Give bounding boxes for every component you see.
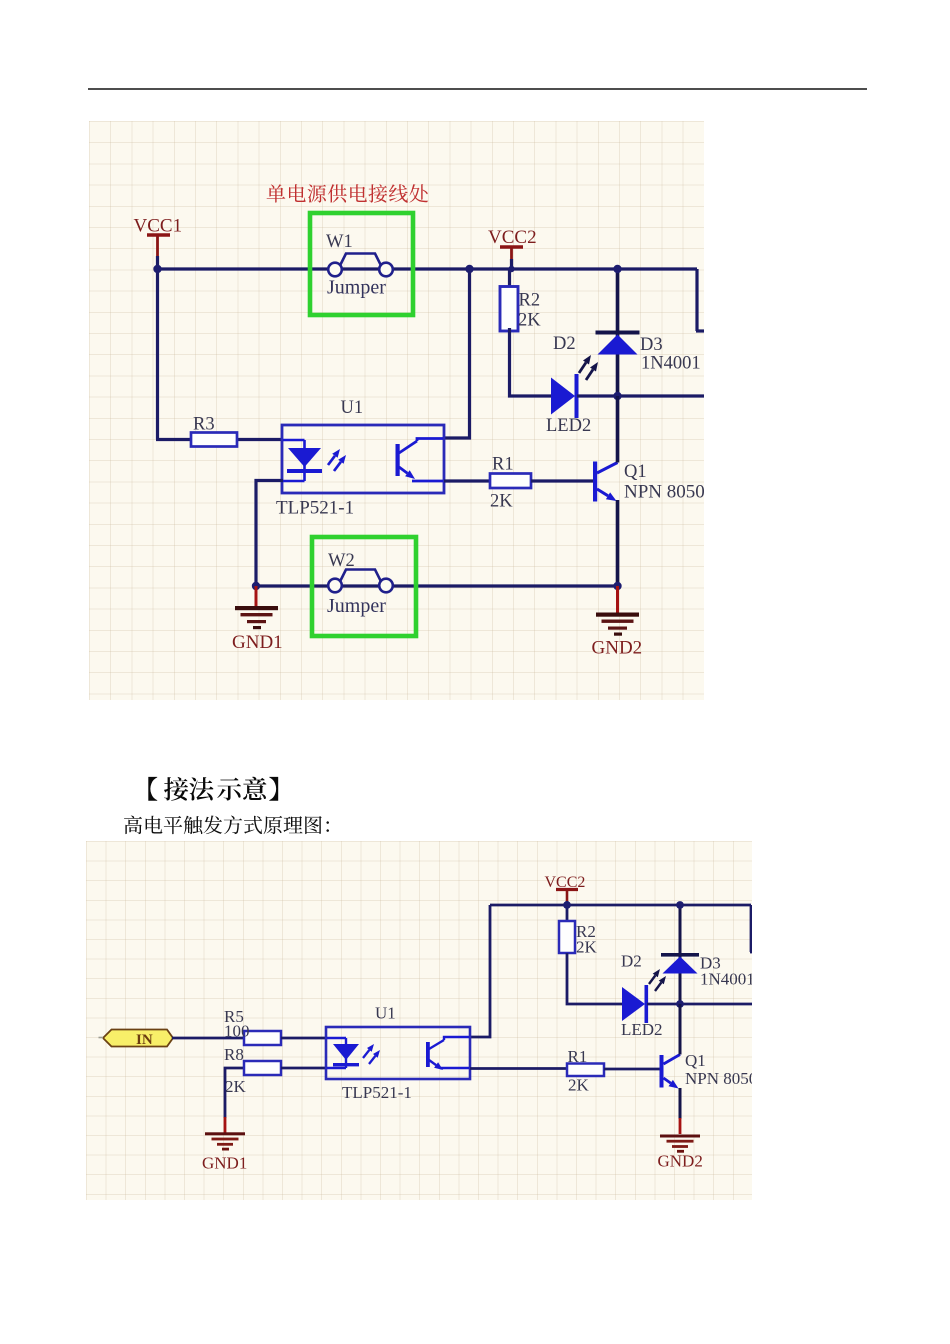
optocoupler U1 box	[326, 1027, 470, 1079]
wire: VCC1 stem	[156, 256, 159, 271]
diode D2 LED2	[622, 987, 645, 1021]
wire: R1 to Q1 base	[531, 479, 594, 482]
U1 LED emission arrows	[328, 456, 335, 465]
wire: left drop VCC1 to R3 row	[156, 269, 159, 440]
wire: U1 pin4 riser	[444, 269, 470, 438]
svg-text:GND2: GND2	[658, 1152, 703, 1171]
wire: Q1 emitter drop	[616, 500, 620, 586]
U1 phototransistor	[396, 444, 400, 476]
svg-text:W1: W1	[326, 232, 353, 252]
svg-text:NPN 8050: NPN 8050	[685, 1069, 752, 1088]
LED2 emission arrows	[579, 363, 586, 374]
svg-text:NPN 8050: NPN 8050	[624, 482, 704, 503]
svg-text:D2: D2	[621, 952, 642, 971]
green highlight box W2	[312, 537, 416, 636]
svg-text:Jumper: Jumper	[327, 595, 386, 617]
svg-text:R1: R1	[568, 1047, 588, 1066]
wire: right corner drop	[750, 905, 753, 952]
power VCC1 symbol	[147, 235, 170, 257]
svg-text:W2: W2	[328, 551, 355, 571]
wire: LED2 out to right edge	[647, 1003, 752, 1006]
diode D3 1N4001	[596, 331, 640, 335]
wire: top VCC rail	[158, 267, 698, 270]
svg-text:LED2: LED2	[621, 1020, 663, 1039]
ground GND2 symbol	[679, 1118, 682, 1134]
jumper W2	[328, 570, 393, 593]
svg-text:2K: 2K	[576, 938, 598, 957]
svg-text:U1: U1	[341, 398, 364, 418]
svg-text:GND1: GND1	[202, 1154, 247, 1173]
ground GND2 symbol	[616, 586, 619, 614]
wire: R3 row left	[156, 438, 191, 441]
wire: U1 pin3 to R1	[470, 1067, 567, 1070]
wire: right stub tick	[750, 951, 758, 954]
svg-text:R8: R8	[224, 1045, 244, 1064]
wire: U1 pin3 to R1	[444, 479, 490, 482]
green highlight box W1	[310, 213, 413, 315]
diode D3 1N4001	[661, 953, 699, 957]
power VCC2 symbol	[556, 890, 578, 903]
schematic 1 panel	[89, 121, 704, 700]
svg-text:GND2: GND2	[592, 638, 643, 659]
wire: R1 to Q1 base	[604, 1068, 660, 1071]
power VCC2 symbol	[500, 247, 523, 260]
svg-text:IN: IN	[136, 1032, 153, 1048]
wire: Q1 emitter drop	[679, 1088, 682, 1119]
svg-text:Jumper: Jumper	[327, 277, 386, 299]
svg-text:GND1: GND1	[232, 632, 283, 653]
svg-text:Q1: Q1	[624, 462, 647, 482]
svg-text:2K: 2K	[490, 492, 513, 512]
schematic 2 panel	[86, 841, 752, 1200]
svg-text:LED2: LED2	[546, 416, 591, 436]
svg-text:Q1: Q1	[685, 1051, 706, 1070]
svg-text:VCC2: VCC2	[545, 874, 586, 891]
wire: D3 branch vertical	[616, 269, 620, 396]
wire: R2 bottom lead	[567, 953, 623, 1004]
svg-text:R2: R2	[519, 291, 541, 311]
ground GND1 symbol	[255, 586, 258, 608]
svg-text:R1: R1	[492, 455, 514, 475]
wire: VCC2 stem	[566, 901, 569, 906]
transistor Q1	[660, 1055, 664, 1088]
wire: VCC2 stem	[510, 259, 513, 271]
U1 internal LED	[283, 439, 305, 442]
svg-text:R3: R3	[193, 415, 215, 435]
svg-text:VCC1: VCC1	[134, 216, 183, 237]
U1 internal LED	[327, 1037, 346, 1039]
wire: R5 to U1	[281, 1037, 327, 1040]
wire: R3 to U1	[237, 438, 283, 441]
resistor R1	[567, 1064, 604, 1077]
U1 phototransistor	[426, 1042, 430, 1067]
red note 单电源供电接线处	[267, 184, 429, 202]
wire: R2 bottom lead to LED row	[510, 328, 553, 396]
svg-text:TLP521-1: TLP521-1	[276, 498, 354, 519]
wire: top-right corner drop	[695, 269, 698, 331]
optocoupler U1 box	[282, 425, 444, 493]
wire: top rail	[490, 904, 751, 907]
resistor R2	[500, 287, 518, 332]
wire: right stub tick	[696, 329, 705, 332]
svg-text:D2: D2	[553, 334, 576, 354]
junction dot LED row	[613, 392, 621, 400]
resistor R2	[559, 921, 575, 953]
svg-text:U1: U1	[375, 1004, 396, 1023]
svg-text:2K: 2K	[568, 1076, 590, 1095]
wire: R8 left to GND	[225, 1068, 244, 1118]
jumper W1	[328, 254, 393, 277]
wire: Q1 collector	[616, 396, 620, 463]
subtitle 高电平触发方式原理图：	[124, 816, 329, 835]
wire: port to R5	[172, 1037, 244, 1040]
U1 LED emission arrows	[363, 1050, 369, 1058]
svg-text:1N4001: 1N4001	[700, 970, 752, 989]
junction dots bottom rail	[252, 582, 260, 590]
svg-text:2K: 2K	[518, 311, 541, 331]
resistor R8	[244, 1061, 281, 1075]
LED2 emission arrows	[649, 976, 655, 985]
svg-text:2K: 2K	[225, 1077, 247, 1096]
wire: R8 to U1	[281, 1067, 327, 1070]
svg-text:VCC2: VCC2	[488, 227, 537, 248]
wire: D3 branch vertical	[679, 905, 682, 1004]
wire: LED2 cathode to right edge	[577, 394, 705, 397]
svg-text:1N4001: 1N4001	[641, 354, 701, 374]
diode D2 LED2	[551, 378, 575, 415]
svg-text:D3: D3	[640, 335, 663, 355]
wire: Q1 collector	[679, 1004, 682, 1055]
junction dots top rail	[153, 265, 161, 273]
wire: bottom rail	[256, 584, 618, 587]
svg-text:100: 100	[224, 1022, 250, 1041]
wire: R2 top lead	[566, 905, 569, 921]
top horizontal rule	[88, 88, 867, 90]
port left tick	[99, 1037, 104, 1039]
junction dots	[563, 901, 571, 909]
transistor Q1	[593, 462, 597, 502]
resistor R1	[490, 474, 531, 489]
wire: U1 pin2 to left drop	[256, 481, 283, 587]
port IN	[103, 1030, 173, 1047]
ground GND1 symbol	[224, 1117, 227, 1133]
svg-text:TLP521-1: TLP521-1	[342, 1083, 412, 1102]
wire: left drop to U1 pin4	[470, 905, 490, 1037]
wire: R2 top lead	[508, 269, 511, 288]
resistor R5	[244, 1031, 281, 1045]
resistor R3	[191, 433, 237, 447]
